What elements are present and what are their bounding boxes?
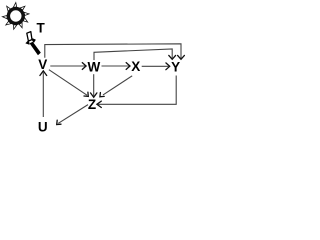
svg-text:W: W xyxy=(88,60,101,75)
svg-text:T: T xyxy=(36,20,45,35)
svg-text:X: X xyxy=(131,59,140,74)
svg-text:Y: Y xyxy=(171,60,180,75)
svg-text:V: V xyxy=(38,57,47,72)
svg-text:Z: Z xyxy=(88,97,96,112)
svg-text:U: U xyxy=(38,120,48,134)
